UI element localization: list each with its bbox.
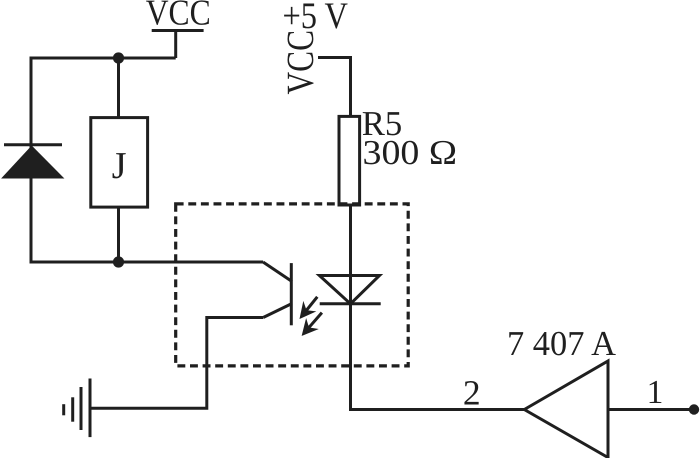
- wire emitter to ground: [90, 318, 263, 409]
- wire output pin 1: [608, 408, 694, 411]
- light arrow 2: [303, 313, 322, 335]
- svg-text:J: J: [112, 145, 127, 187]
- svg-text:2: 2: [463, 372, 481, 412]
- resistor R5: [339, 116, 360, 205]
- svg-text:VCC: VCC: [146, 0, 211, 33]
- diode D1: [1, 145, 64, 179]
- optocoupler dashed box: [176, 204, 409, 366]
- svg-text:1: 1: [647, 374, 664, 411]
- light arrow 1: [301, 297, 318, 318]
- LED D2: [319, 276, 380, 304]
- buffer U1 7407: [524, 361, 608, 458]
- wire J bottom: [117, 207, 120, 262]
- wire +5V top-right: [318, 58, 351, 117]
- ground: [64, 379, 90, 438]
- wire J top: [117, 58, 120, 118]
- power symbol VCC (top-left): [152, 29, 204, 58]
- svg-text:300 Ω: 300 Ω: [363, 133, 458, 172]
- svg-text:7 407 A: 7 407 A: [507, 324, 617, 363]
- wire top-left horizontal and left vertical and bottom horizontal: [31, 58, 263, 262]
- phototransistor Q1: [263, 262, 292, 325]
- relay coil J: [91, 118, 148, 208]
- wire LED vertical: [351, 205, 525, 410]
- svg-text:VCC: VCC: [280, 30, 322, 95]
- node junction top: [113, 52, 124, 63]
- node junction bottom: [113, 256, 124, 267]
- node output terminal: [689, 404, 699, 414]
